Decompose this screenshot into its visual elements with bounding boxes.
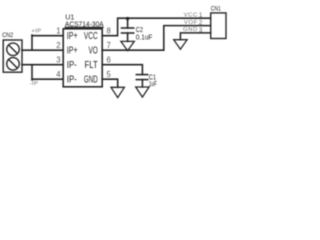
svg-text:CN2: CN2 bbox=[2, 32, 13, 39]
svg-text:IP+: IP+ bbox=[67, 46, 78, 57]
svg-text:6: 6 bbox=[107, 55, 111, 64]
wire U1 pin5 GND to ground bbox=[102, 79, 118, 87]
wire U1 pin3 IP- from CN2-2 bbox=[22, 64, 63, 66]
svg-text:0.1uF: 0.1uF bbox=[136, 33, 153, 42]
capacitor C1 bbox=[136, 75, 147, 87]
svg-text:FLT: FLT bbox=[85, 60, 98, 71]
svg-text:IP-: IP- bbox=[67, 75, 77, 86]
connector CN1 bbox=[211, 13, 226, 39]
svg-text:2: 2 bbox=[56, 41, 60, 50]
IC U1 ACS714 body bbox=[63, 29, 102, 87]
svg-text:VCC: VCC bbox=[184, 12, 198, 18]
ground (pin5) bbox=[111, 87, 124, 97]
svg-text:1uF: 1uF bbox=[149, 79, 157, 88]
wire +IP bus bbox=[31, 35, 33, 50]
svg-text:2: 2 bbox=[199, 20, 203, 27]
svg-text:CN1: CN1 bbox=[211, 5, 221, 12]
ground (C2) bbox=[121, 41, 134, 50]
wire U1 pin2 IP+ from CN2-1 bbox=[22, 49, 63, 51]
svg-text:VOF: VOF bbox=[184, 20, 198, 26]
ground (C1) bbox=[136, 87, 149, 97]
wire U1 pin6 FLT to C1 bbox=[102, 65, 142, 75]
svg-text:-IP: -IP bbox=[30, 81, 39, 87]
svg-text:GND: GND bbox=[84, 75, 98, 86]
svg-text:7: 7 bbox=[107, 41, 111, 50]
wire GND net CN1-3 to ground bbox=[180, 33, 210, 40]
connector CN2 bbox=[3, 40, 22, 72]
svg-text:IP+: IP+ bbox=[67, 31, 78, 42]
wire U1 pin8 VCC net to CN1-1 bbox=[102, 18, 211, 36]
svg-text:IP-: IP- bbox=[67, 60, 77, 71]
underline ACS714-30A bbox=[65, 26, 104, 28]
svg-text:8: 8 bbox=[107, 26, 111, 35]
svg-text:5: 5 bbox=[107, 70, 112, 79]
svg-text:+IP: +IP bbox=[31, 28, 41, 34]
wire -IP bus bbox=[31, 65, 33, 80]
svg-text:3: 3 bbox=[56, 56, 60, 65]
wire U1 pin1 IP+ bbox=[32, 35, 63, 37]
svg-text:GND: GND bbox=[183, 27, 198, 33]
svg-text:1: 1 bbox=[56, 27, 60, 36]
svg-text:1: 1 bbox=[199, 12, 203, 19]
ground (CN1 GND) bbox=[174, 40, 187, 50]
svg-text:3: 3 bbox=[199, 27, 203, 34]
svg-text:VO: VO bbox=[89, 46, 99, 57]
svg-text:4: 4 bbox=[56, 70, 61, 79]
node junction VCC/C2 bbox=[126, 17, 129, 20]
wire U1 pin7 VO net VOF to CN1-2 bbox=[102, 26, 211, 51]
wire U1 pin4 IP- bbox=[32, 78, 63, 80]
capacitor C2 bbox=[122, 18, 134, 41]
svg-text:VCC: VCC bbox=[84, 31, 98, 42]
